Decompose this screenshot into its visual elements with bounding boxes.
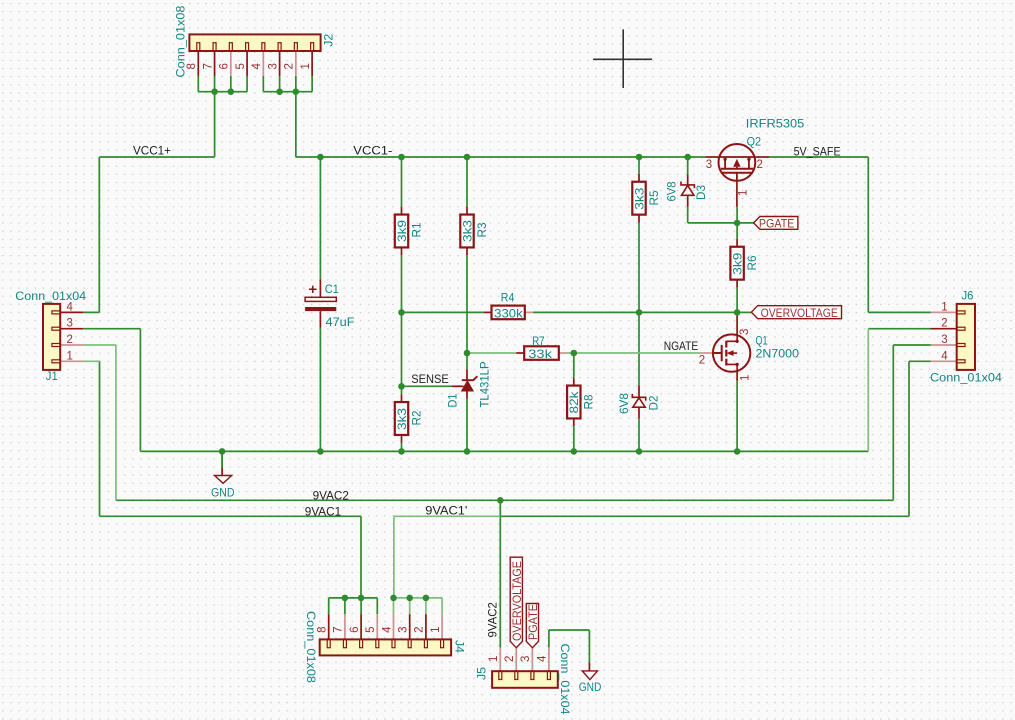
svg-text:4: 4: [381, 626, 393, 633]
svg-text:2: 2: [504, 656, 516, 662]
svg-text:J2: J2: [321, 33, 335, 46]
svg-text:2N7000: 2N7000: [756, 346, 800, 360]
svg-text:9VAC2: 9VAC2: [486, 602, 500, 638]
svg-text:3k3: 3k3: [460, 220, 474, 242]
svg-text:3: 3: [67, 318, 73, 330]
svg-text:2: 2: [941, 318, 947, 330]
svg-text:5: 5: [365, 626, 377, 632]
svg-text:4: 4: [251, 63, 263, 70]
svg-text:7: 7: [333, 626, 345, 632]
svg-text:D1: D1: [446, 393, 460, 407]
svg-text:3: 3: [941, 334, 947, 346]
svg-text:2: 2: [67, 334, 73, 346]
svg-text:J1: J1: [46, 369, 58, 383]
svg-text:Conn_01x04: Conn_01x04: [558, 644, 572, 715]
svg-text:J5: J5: [474, 667, 488, 680]
svg-text:SENSE: SENSE: [411, 372, 449, 386]
svg-text:3k9: 3k9: [395, 220, 409, 242]
svg-text:J6: J6: [962, 289, 974, 303]
svg-text:5: 5: [235, 63, 247, 69]
svg-text:R2: R2: [409, 410, 423, 425]
svg-text:5V_SAFE: 5V_SAFE: [794, 144, 841, 158]
svg-text:PGATE: PGATE: [526, 604, 540, 640]
svg-text:Q1: Q1: [756, 333, 768, 347]
svg-text:47uF: 47uF: [326, 315, 355, 329]
svg-text:2: 2: [757, 159, 763, 171]
svg-text:4: 4: [67, 301, 74, 313]
svg-text:1: 1: [430, 626, 442, 632]
svg-text:6: 6: [219, 63, 231, 69]
svg-text:1: 1: [740, 375, 752, 381]
svg-text:VCC1-: VCC1-: [353, 144, 392, 158]
svg-text:R3: R3: [475, 222, 489, 237]
svg-text:3k3: 3k3: [632, 187, 646, 209]
svg-text:3: 3: [398, 626, 410, 632]
svg-text:OVERVOLTAGE: OVERVOLTAGE: [761, 306, 838, 320]
svg-text:R1: R1: [409, 222, 423, 237]
svg-text:1: 1: [488, 656, 500, 662]
svg-text:Q2: Q2: [747, 134, 762, 148]
svg-text:IRFR5305: IRFR5305: [746, 116, 805, 130]
svg-text:NGATE: NGATE: [664, 339, 699, 353]
svg-text:1: 1: [941, 301, 947, 313]
svg-text:3: 3: [706, 159, 712, 171]
svg-text:VCC1+: VCC1+: [133, 144, 171, 158]
svg-text:3: 3: [739, 329, 751, 335]
svg-text:R7: R7: [532, 334, 545, 348]
svg-text:D3: D3: [694, 185, 708, 200]
svg-text:6V8: 6V8: [665, 181, 679, 201]
svg-text:Conn_01x04: Conn_01x04: [930, 371, 1002, 385]
svg-text:R4: R4: [501, 291, 515, 305]
svg-text:R5: R5: [647, 190, 661, 205]
svg-text:33k: 33k: [528, 347, 553, 361]
svg-text:3k3: 3k3: [395, 408, 409, 430]
svg-text:8: 8: [317, 626, 329, 632]
svg-text:1: 1: [300, 63, 312, 69]
svg-text:4: 4: [537, 655, 549, 662]
svg-text:C1: C1: [325, 282, 339, 296]
svg-text:GND: GND: [579, 680, 602, 694]
svg-text:6: 6: [349, 626, 361, 632]
svg-text:2: 2: [414, 626, 426, 632]
svg-text:3k9: 3k9: [731, 252, 745, 274]
svg-text:D2: D2: [647, 395, 661, 410]
svg-text:7: 7: [202, 63, 214, 69]
svg-text:2: 2: [284, 63, 296, 69]
svg-text:6V8: 6V8: [617, 393, 631, 414]
svg-text:R6: R6: [745, 255, 759, 270]
svg-text:Conn_01x08: Conn_01x08: [304, 611, 318, 683]
svg-text:82k: 82k: [567, 390, 581, 413]
svg-text:330k: 330k: [494, 307, 524, 321]
svg-text:9VAC1': 9VAC1': [425, 504, 467, 518]
svg-text:PGATE: PGATE: [759, 216, 795, 230]
svg-text:GND: GND: [211, 485, 235, 499]
svg-text:1: 1: [67, 350, 73, 362]
svg-text:OVERVOLTAGE: OVERVOLTAGE: [510, 561, 524, 641]
svg-text:3: 3: [520, 656, 532, 662]
svg-text:4: 4: [941, 350, 948, 362]
svg-text:2: 2: [699, 355, 705, 367]
svg-text:8: 8: [186, 63, 198, 69]
svg-text:9VAC2: 9VAC2: [313, 488, 350, 502]
svg-text:1: 1: [738, 190, 750, 196]
svg-text:3: 3: [267, 63, 279, 69]
svg-text:9VAC1: 9VAC1: [305, 504, 342, 518]
svg-text:J4: J4: [453, 640, 467, 653]
svg-text:TL431LP: TL431LP: [478, 362, 492, 408]
svg-text:Conn_01x04: Conn_01x04: [15, 289, 86, 303]
svg-text:R8: R8: [582, 394, 596, 409]
